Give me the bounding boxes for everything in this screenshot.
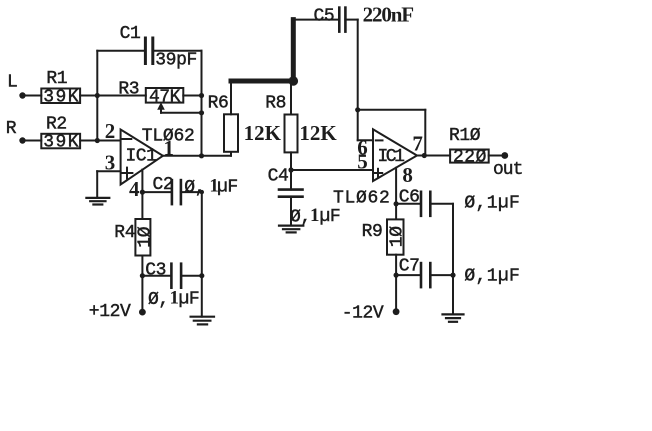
resistor R9 bbox=[387, 219, 404, 254]
wire R8 bottom stub bbox=[290, 152, 292, 170]
resistor R2 bbox=[41, 134, 80, 149]
svg-text:C3: C3 bbox=[145, 261, 166, 281]
svg-text:C1: C1 bbox=[120, 24, 141, 44]
wire R6 top stub bbox=[230, 81, 232, 114]
node B junction bbox=[95, 138, 100, 143]
svg-text:22Ø: 22Ø bbox=[453, 147, 487, 167]
capacitor C6 bbox=[420, 192, 423, 216]
resistor R10 bbox=[450, 150, 489, 163]
capacitor C2 bbox=[171, 180, 174, 204]
svg-text:2: 2 bbox=[105, 119, 116, 143]
capacitor C7 bbox=[420, 263, 423, 287]
svg-text:4: 4 bbox=[129, 177, 140, 201]
svg-text:7: 7 bbox=[412, 132, 423, 156]
wire thick bus horizontal bbox=[231, 79, 293, 84]
svg-text:µF: µF bbox=[179, 290, 200, 310]
svg-text:R3: R3 bbox=[118, 80, 139, 100]
wire pin 6 bbox=[358, 139, 373, 141]
trimmer wiper arrow bbox=[160, 108, 162, 113]
svg-text:Ø,: Ø, bbox=[184, 178, 205, 198]
resistor R1 bbox=[41, 89, 80, 104]
svg-text:+12V: +12V bbox=[89, 302, 131, 322]
node L input terminal bbox=[19, 92, 25, 98]
svg-text:out: out bbox=[493, 160, 523, 180]
wire C6 right bbox=[430, 203, 453, 205]
svg-text:220nF: 220nF bbox=[363, 3, 415, 27]
node pin4/C2 junction bbox=[140, 190, 145, 195]
svg-text:C2: C2 bbox=[153, 175, 174, 195]
svg-text:R2: R2 bbox=[46, 114, 67, 134]
node out terminal bbox=[501, 152, 508, 159]
node thick bus junction bbox=[289, 76, 299, 86]
wire feedback top bbox=[358, 109, 426, 111]
wire pin 8 down bbox=[395, 168, 397, 220]
svg-text:C7: C7 bbox=[399, 257, 420, 277]
ground G4 bbox=[443, 313, 464, 315]
svg-text:3: 3 bbox=[105, 151, 116, 175]
svg-text:TLØ62: TLØ62 bbox=[333, 189, 389, 209]
svg-text:1: 1 bbox=[310, 205, 320, 226]
svg-text:µF: µF bbox=[217, 178, 238, 198]
wire right ground vertical bbox=[452, 204, 454, 315]
wire R9 bottom stub bbox=[395, 255, 397, 312]
svg-text:IC1: IC1 bbox=[126, 147, 157, 167]
node C3 right junction bbox=[199, 273, 204, 278]
svg-text:Ø,: Ø, bbox=[290, 208, 311, 228]
wire C1 right bbox=[153, 50, 202, 52]
svg-text:R: R bbox=[6, 119, 17, 139]
wire summing node vertical bbox=[96, 51, 98, 141]
svg-text:R4: R4 bbox=[114, 223, 135, 243]
svg-text:5: 5 bbox=[357, 149, 368, 173]
plus sign pin5 bbox=[374, 172, 382, 174]
resistor R8 bbox=[285, 115, 298, 153]
svg-text:R6: R6 bbox=[208, 94, 229, 114]
ground G3 bbox=[191, 316, 214, 318]
svg-text:C6: C6 bbox=[399, 188, 420, 208]
wire C2 left bbox=[142, 191, 172, 193]
wire R4 bottom stub bbox=[141, 256, 143, 313]
wire C5 right bbox=[345, 19, 357, 21]
wire C3 left bbox=[142, 275, 171, 277]
wire feedback vertical bbox=[201, 51, 203, 156]
svg-text:12K: 12K bbox=[244, 121, 282, 145]
capacitor C3 bbox=[170, 264, 173, 288]
node pin5/C4 junction bbox=[288, 167, 293, 172]
wire C3 right bbox=[181, 275, 202, 277]
node A junction bbox=[95, 93, 100, 98]
svg-text:C4: C4 bbox=[268, 166, 289, 186]
wire C5 to feedback node bbox=[357, 20, 359, 141]
capacitor C1 bbox=[144, 38, 147, 64]
svg-text:39K: 39K bbox=[43, 133, 79, 153]
ground G2 bbox=[279, 225, 303, 227]
node C3 junction bbox=[140, 273, 145, 278]
wire R input to R2 bbox=[23, 140, 42, 142]
wire pin 4 down bbox=[141, 170, 143, 219]
node op2 output junction bbox=[422, 153, 427, 158]
wire op2 output bbox=[417, 155, 450, 157]
svg-text:R9: R9 bbox=[362, 222, 383, 242]
wire C2 right bbox=[181, 191, 202, 193]
svg-text:TLØ62: TLØ62 bbox=[142, 126, 195, 146]
wire left ground vertical bbox=[201, 192, 203, 317]
wire thick bus vertical bbox=[291, 20, 296, 81]
wire C5 left bbox=[293, 19, 339, 21]
svg-text:R1Ø: R1Ø bbox=[449, 126, 481, 146]
wire C6 left bbox=[396, 203, 421, 205]
wire R2 to op-amp pin 2 bbox=[80, 140, 121, 142]
svg-text:39pF: 39pF bbox=[155, 51, 197, 71]
node pin C7 junction bbox=[394, 273, 399, 278]
wire R1 to node A / R3 bbox=[80, 95, 146, 97]
node C2 right corner bbox=[200, 190, 204, 194]
svg-text:L: L bbox=[7, 73, 17, 93]
node C7 right junction bbox=[450, 273, 455, 278]
wire R10 to out bbox=[489, 155, 505, 157]
wire pin 3 to ground bbox=[97, 170, 120, 172]
capacitor C5 bbox=[338, 8, 341, 32]
svg-text:39K: 39K bbox=[43, 88, 79, 108]
svg-text:R8: R8 bbox=[265, 94, 286, 114]
wire C7 right bbox=[430, 274, 453, 276]
svg-text:Ø,1µF: Ø,1µF bbox=[464, 193, 519, 213]
svg-text:1Ø: 1Ø bbox=[388, 226, 408, 247]
wire op1 output bbox=[163, 155, 231, 157]
minus sign pin6 bbox=[376, 139, 383, 141]
node +12V terminal bbox=[139, 309, 146, 316]
wire L input to R1 bbox=[23, 95, 42, 97]
minus sign pin2 bbox=[122, 138, 131, 140]
wire pin 5 bbox=[291, 169, 373, 171]
resistor R4 bbox=[135, 219, 150, 256]
svg-text:Ø,: Ø, bbox=[148, 290, 169, 310]
plus sign pin3 bbox=[122, 172, 133, 174]
svg-text:1Ø: 1Ø bbox=[135, 226, 155, 247]
node -12V terminal bbox=[393, 308, 400, 315]
wire C7 left bbox=[396, 274, 421, 276]
node R input terminal bbox=[19, 137, 25, 143]
svg-text:C5: C5 bbox=[314, 7, 335, 27]
wire R8 top stub bbox=[290, 81, 292, 115]
op-amp U1A triangle bbox=[121, 130, 163, 185]
svg-text:47K: 47K bbox=[149, 87, 181, 107]
node pin8/C6 junction bbox=[394, 201, 399, 206]
svg-text:R1: R1 bbox=[46, 69, 67, 89]
svg-text:µF: µF bbox=[320, 207, 341, 227]
wire C1 left bbox=[97, 50, 145, 52]
op-amp U1B triangle bbox=[373, 129, 417, 181]
wire R6 bottom stub bbox=[230, 152, 232, 156]
svg-text:-12V: -12V bbox=[342, 304, 384, 324]
capacitor C4 bbox=[290, 170, 292, 190]
svg-text:Ø,1µF: Ø,1µF bbox=[464, 266, 519, 286]
svg-text:IC1: IC1 bbox=[378, 147, 405, 167]
svg-text:12K: 12K bbox=[299, 121, 337, 145]
resistor R6 bbox=[224, 114, 238, 152]
wire feedback right vertical bbox=[424, 110, 426, 156]
ground G1 bbox=[86, 197, 109, 199]
resistor R3 trimmer bbox=[146, 88, 184, 103]
